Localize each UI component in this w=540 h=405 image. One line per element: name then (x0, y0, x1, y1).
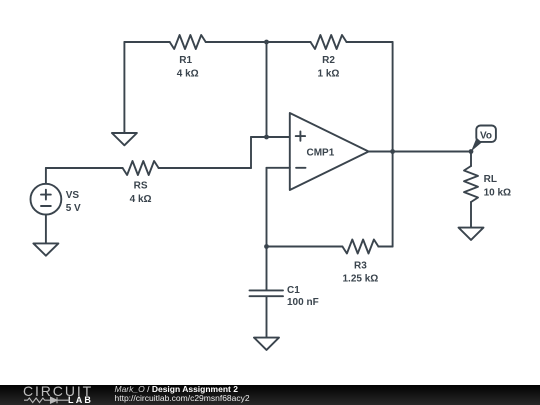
svg-text:1 kΩ: 1 kΩ (318, 69, 340, 80)
junction node C dot (264, 244, 269, 249)
junction node B dot (264, 135, 269, 140)
wire R2 right end to top-right corner (347, 41, 393, 43)
VS plus sign (41, 190, 51, 200)
svg-text:1.25 kΩ: 1.25 kΩ (342, 274, 378, 285)
wire R3 right to right vertical (378, 246, 392, 248)
CircuitLab logo wire-diode doodle (24, 396, 70, 405)
wire RS right to step corner (159, 167, 251, 169)
VS minus sign (41, 205, 51, 207)
footer bar (0, 385, 540, 405)
op-amp plus input marker (296, 131, 305, 140)
wire RL bottom lead (470, 202, 472, 228)
junction output node dot (390, 149, 395, 154)
resistor R2 (311, 35, 347, 49)
junction Vo node dot (469, 149, 474, 154)
wire top-left from R1 left end to left vertical drop (124, 41, 169, 43)
svg-text:R3: R3 (354, 261, 367, 272)
footer credit line (115, 385, 238, 394)
resistor R3 (342, 240, 378, 254)
resistor RL (464, 166, 478, 202)
voltage source VS circle (31, 184, 62, 215)
resistor R1 (170, 35, 206, 49)
op-amp minus input marker (296, 167, 305, 169)
wire C1 top lead (266, 247, 268, 290)
svg-text:RS: RS (134, 181, 148, 192)
wire VS top lead (45, 168, 47, 184)
wire node C vertical down to R3 node (266, 168, 268, 247)
ground under C1 (254, 338, 279, 350)
wire VS bottom lead (45, 215, 47, 244)
svg-text:R2: R2 (322, 55, 335, 66)
resistor RS (123, 161, 159, 175)
wire inverting input to node C vertical (267, 167, 290, 169)
svg-text:RL: RL (484, 174, 497, 185)
svg-text:100 nF: 100 nF (287, 297, 319, 308)
node flag Vo box (476, 126, 496, 142)
CircuitLab logo LAB (68, 397, 93, 403)
svg-text:R1: R1 (179, 55, 192, 66)
ground under RL (459, 228, 484, 240)
wire node B to op-amp + input (251, 136, 290, 138)
svg-text:10 kΩ: 10 kΩ (484, 188, 511, 199)
svg-text:CMP1: CMP1 (307, 148, 335, 159)
wire node A to R2 left (267, 41, 311, 43)
wire C1 bottom lead (266, 297, 268, 338)
op-amp CMP1 triangle (290, 113, 369, 190)
svg-text:VS: VS (66, 190, 80, 201)
wire R1 right to node A (206, 41, 267, 43)
svg-text:4 kΩ: 4 kΩ (177, 69, 199, 80)
wire left vertical from R1 down to ground (123, 42, 125, 133)
wire R3 node to R3 left (267, 246, 343, 248)
node flag Vo pointer (471, 138, 482, 152)
capacitor C1 (250, 290, 284, 296)
ground under VS (33, 243, 58, 255)
wire op-amp output to RL node (369, 151, 471, 153)
ground under R1 (112, 133, 137, 145)
wire VS top corner to RS left (46, 167, 123, 169)
svg-text:Vo: Vo (480, 131, 492, 142)
svg-text:C1: C1 (287, 285, 300, 296)
wire node A down to noninverting node B (266, 42, 268, 137)
CircuitLab logo wordmark CIRCUIT (23, 386, 93, 397)
footer url line (115, 394, 250, 403)
wire RL top lead (470, 152, 472, 167)
wire right vertical from top-right corner down to R3 level (392, 42, 394, 247)
svg-text:4 kΩ: 4 kΩ (130, 194, 152, 205)
junction node A dot (264, 40, 269, 45)
svg-text:5 V: 5 V (66, 203, 81, 214)
wire step vertical x=251 (250, 137, 252, 168)
